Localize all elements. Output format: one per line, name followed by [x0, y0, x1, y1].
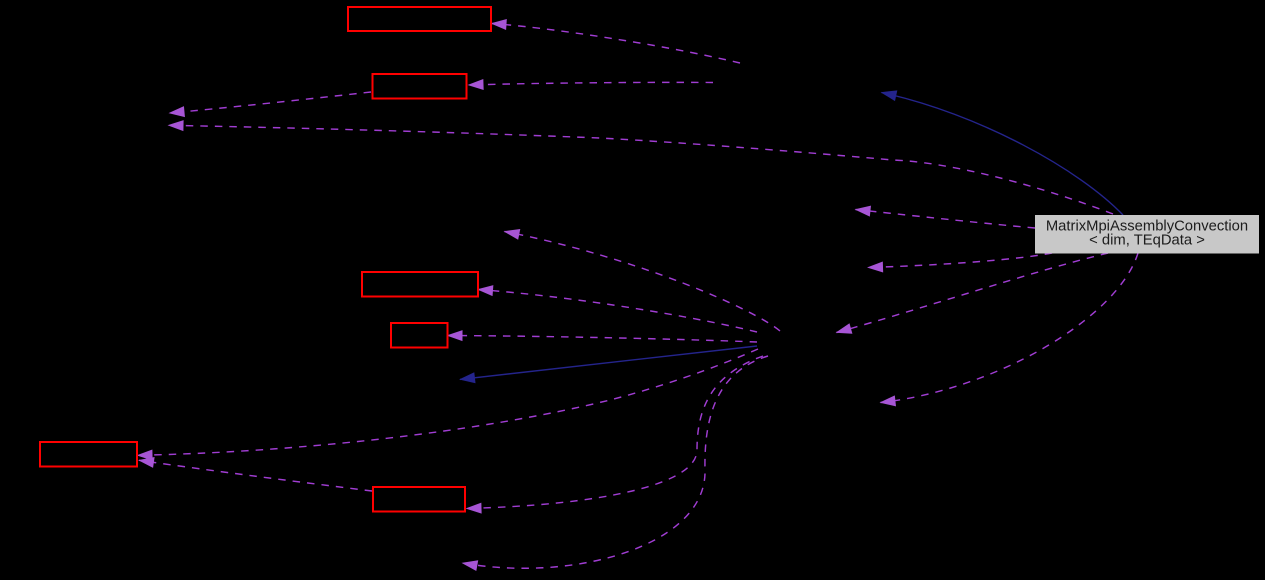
box F (red truncated node): [373, 487, 465, 512]
edge: box F -> box E (dashed purple): [139, 460, 372, 491]
edge: main node -> invisible node N1, inheritance (solid blue): [882, 93, 1124, 216]
edge: main node -> invisible node R2 (dashed purple): [868, 253, 1052, 268]
edge: main node -> invisible node R4 (dashed purple): [881, 253, 1139, 403]
edge: main node -> invisible node R1 (dashed purple): [856, 210, 1036, 229]
edge: hub -> box C (dashed purple): [478, 290, 757, 333]
edge: hub -> box D (dashed purple): [448, 336, 758, 343]
edge: main node -> far-left invisible node (dashed purple): [169, 125, 1114, 214]
box C (red truncated node): [362, 272, 478, 297]
edge: main node -> hub invisible node (dashed purple): [837, 253, 1109, 333]
svg-text:< dim, TEqData >: < dim, TEqData >: [1089, 233, 1205, 249]
box A (red truncated node): [348, 7, 491, 31]
main node MatrixMpiAssemblyConvection: [1035, 215, 1259, 254]
edge: hub -> box F (dashed purple): [467, 356, 764, 509]
edge: invisible node N1 -> box B (dashed purple): [469, 82, 714, 85]
box D (red truncated node): [391, 323, 448, 348]
edge: hub -> box E (dashed purple): [138, 349, 759, 455]
box E (red truncated node): [40, 442, 137, 467]
edge: invisible node N1 -> box A (dashed purple): [492, 24, 741, 64]
edge: hub -> bottom invisible node (dashed purple): [463, 356, 769, 568]
box B (red truncated node): [373, 74, 467, 99]
edge: hub -> invisible node M1 (dashed purple): [505, 232, 781, 332]
edge: hub -> invisible node B1, inheritance (solid blue): [460, 346, 757, 379]
edge: box B -> far-left invisible node (dashed purple): [170, 92, 372, 113]
